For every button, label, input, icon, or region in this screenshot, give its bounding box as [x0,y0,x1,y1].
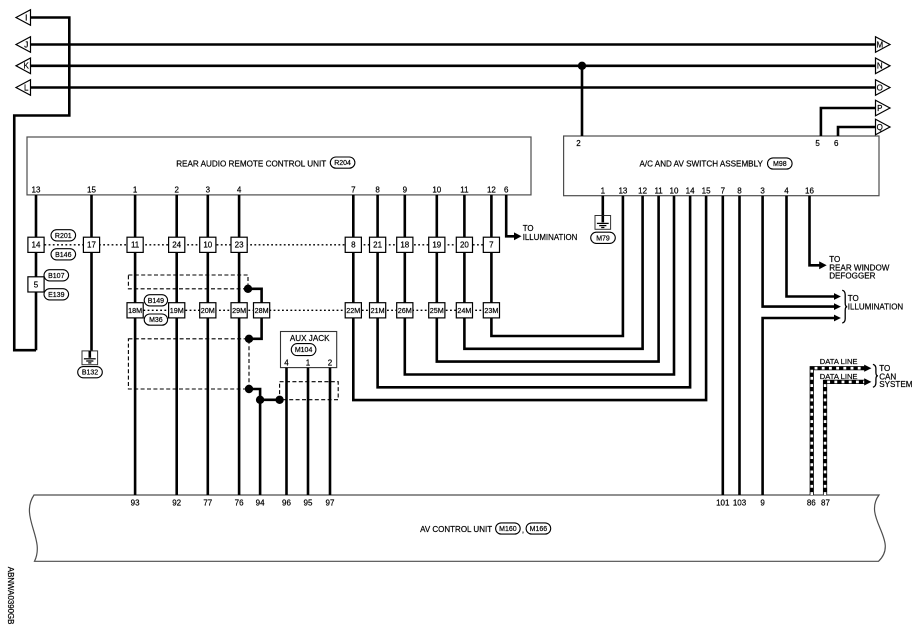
svg-text:13: 13 [618,186,627,195]
svg-text:I: I [25,13,27,22]
svg-text:21: 21 [373,241,382,250]
svg-text:95: 95 [304,499,313,508]
svg-text:14: 14 [686,186,695,195]
svg-text:AUX JACK: AUX JACK [290,334,330,343]
svg-text:8: 8 [737,186,742,195]
svg-text:11: 11 [131,241,140,250]
svg-text:24M: 24M [457,306,471,315]
svg-text:4: 4 [237,185,242,194]
svg-text:19: 19 [432,241,441,250]
svg-text:B149: B149 [148,298,164,305]
svg-text:L: L [24,83,29,92]
svg-text:7: 7 [489,241,494,250]
svg-text:18: 18 [400,241,409,250]
svg-text:M98: M98 [773,161,787,168]
svg-text:25M: 25M [430,306,444,315]
svg-text:92: 92 [172,499,181,508]
svg-text:DATA LINE: DATA LINE [820,357,858,366]
svg-text:23M: 23M [484,306,498,315]
svg-text:12: 12 [638,186,647,195]
svg-text:J: J [24,40,28,49]
svg-text:8: 8 [351,241,356,250]
svg-text:101: 101 [716,499,730,508]
svg-text:REAR AUDIO REMOTE CONTROL UNIT: REAR AUDIO REMOTE CONTROL UNIT [176,159,326,168]
svg-text:7: 7 [721,186,726,195]
svg-text:16: 16 [805,186,814,195]
svg-text:ABNWA0390GB: ABNWA0390GB [6,567,15,625]
svg-text:24: 24 [172,241,181,250]
svg-text:97: 97 [326,499,335,508]
svg-text:B132: B132 [82,370,98,377]
svg-text:8: 8 [375,185,380,194]
svg-text:11: 11 [654,186,663,195]
svg-text:15: 15 [702,186,711,195]
svg-text:2: 2 [576,139,581,148]
svg-text:4: 4 [284,359,289,368]
svg-text:R201: R201 [55,233,72,240]
svg-text:DATA LINE: DATA LINE [820,372,858,381]
svg-text:26M: 26M [398,306,412,315]
svg-text:1: 1 [133,185,138,194]
svg-text:20: 20 [460,241,469,250]
svg-text:86: 86 [807,499,816,508]
svg-text:TO: TO [523,224,534,233]
svg-text:93: 93 [131,499,140,508]
svg-text:M104: M104 [295,347,313,354]
svg-text:4: 4 [784,186,789,195]
svg-text:2: 2 [328,359,333,368]
svg-text:P: P [877,104,882,113]
svg-text:1: 1 [306,359,311,368]
svg-text:77: 77 [203,499,212,508]
svg-text:N: N [877,62,883,71]
svg-text:3: 3 [206,185,211,194]
svg-text:R204: R204 [334,160,351,167]
svg-text:13: 13 [32,185,41,194]
svg-text:M: M [876,40,883,49]
svg-text:3: 3 [760,186,765,195]
svg-text:O: O [877,83,883,92]
svg-text:19M: 19M [170,306,184,315]
svg-text:DEFOGGER: DEFOGGER [829,272,875,281]
svg-text:Q: Q [877,123,883,132]
svg-text:5: 5 [815,139,820,148]
svg-text:5: 5 [34,280,39,289]
svg-text:,: , [522,526,524,535]
svg-text:103: 103 [733,499,747,508]
svg-text:9: 9 [403,185,408,194]
svg-text:11: 11 [460,185,469,194]
svg-text:SYSTEM: SYSTEM [879,380,913,389]
svg-text:76: 76 [235,499,244,508]
svg-text:9: 9 [760,499,765,508]
svg-text:10: 10 [203,241,212,250]
svg-text:1: 1 [601,186,606,195]
svg-text:B146: B146 [55,252,71,259]
svg-text:29M: 29M [232,306,246,315]
svg-text:2: 2 [174,185,179,194]
svg-text:6: 6 [834,139,839,148]
svg-text:17: 17 [87,241,96,250]
svg-text:K: K [24,62,30,71]
svg-text:10: 10 [670,186,679,195]
svg-text:AV CONTROL UNIT: AV CONTROL UNIT [420,525,492,534]
svg-text:10: 10 [432,185,441,194]
svg-text:87: 87 [821,499,830,508]
svg-text:22M: 22M [346,306,360,315]
svg-text:20M: 20M [201,306,215,315]
svg-text:15: 15 [87,185,96,194]
svg-text:18M: 18M [128,306,142,315]
svg-text:M166: M166 [530,526,548,533]
svg-text:96: 96 [282,499,291,508]
svg-text:ILLUMINATION: ILLUMINATION [848,303,904,312]
svg-text:M79: M79 [596,235,610,242]
svg-text:14: 14 [32,241,41,250]
svg-text:28M: 28M [255,306,269,315]
svg-text:E139: E139 [48,292,64,299]
svg-text:M160: M160 [499,526,517,533]
svg-text:6: 6 [504,185,509,194]
svg-text:21M: 21M [371,306,385,315]
svg-text:94: 94 [256,499,265,508]
svg-text:7: 7 [351,185,356,194]
svg-text:12: 12 [487,185,496,194]
svg-text:M36: M36 [149,317,163,324]
svg-text:ILLUMINATION: ILLUMINATION [523,233,578,242]
svg-text:B107: B107 [48,273,64,280]
svg-text:23: 23 [235,241,244,250]
svg-text:A/C AND AV SWITCH ASSEMBLY: A/C AND AV SWITCH ASSEMBLY [640,160,764,169]
